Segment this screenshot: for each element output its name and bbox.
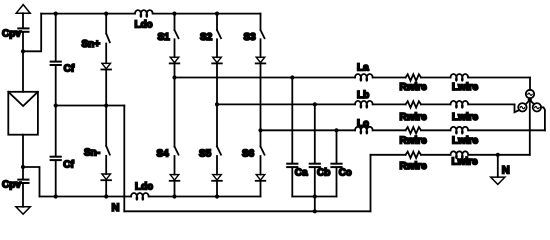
wire star diagonals xyxy=(526,100,530,105)
svg-text:S2: S2 xyxy=(200,32,213,43)
inductor La xyxy=(355,74,373,77)
svg-text:Cc: Cc xyxy=(339,167,352,178)
wire Cpv to junction xyxy=(22,33,24,52)
svg-text:S6: S6 xyxy=(242,149,255,160)
diode of Sn- xyxy=(102,174,111,179)
svg-text:Cf: Cf xyxy=(64,64,75,75)
ground N (triangle down) xyxy=(491,177,505,184)
wire mid junction to Cf bottom xyxy=(55,106,57,156)
node top bus / S1 xyxy=(172,12,176,16)
switch S6 xyxy=(260,130,262,146)
capacitor Cpv (bottom) xyxy=(18,180,28,183)
switch S1 xyxy=(174,14,176,30)
inductor Lwire (neutral) xyxy=(451,151,469,155)
node phase A / S1 xyxy=(172,75,176,79)
wire N row xyxy=(124,210,370,212)
svg-text:N: N xyxy=(502,164,510,176)
diode of S3 xyxy=(256,57,265,62)
node bottom bus / Sn- xyxy=(104,194,108,198)
diode of S4 xyxy=(170,175,179,180)
node phase C / Cc xyxy=(334,128,338,132)
wire phase B bus xyxy=(217,103,355,105)
wire jog junction to bottom bus xyxy=(23,167,40,197)
diode of S2 xyxy=(213,57,222,62)
wire mid row xyxy=(56,105,125,107)
capacitor Cf (bottom) xyxy=(51,157,61,160)
svg-text:Lwire: Lwire xyxy=(452,135,479,146)
switch S2 xyxy=(216,14,218,30)
capacitor Cpv (top) xyxy=(18,28,28,31)
svg-text:Rwire: Rwire xyxy=(400,135,428,146)
wire neutral row xyxy=(371,154,406,156)
svg-text:Cf: Cf xyxy=(63,160,74,171)
svg-text:La: La xyxy=(357,62,369,73)
svg-text:Cpv: Cpv xyxy=(2,29,21,40)
capacitor Cf (top) xyxy=(51,62,61,65)
svg-text:Lwire: Lwire xyxy=(452,156,479,167)
inductor Ldc (bottom) xyxy=(131,193,149,196)
switch S4 xyxy=(174,78,176,147)
svg-text:Ldc: Ldc xyxy=(135,20,153,31)
svg-text:Rwire: Rwire xyxy=(400,112,428,123)
diode of S6 xyxy=(256,175,265,180)
wire Sn+ diode to mid junction xyxy=(105,70,107,105)
wire phase A corner down to source xyxy=(529,78,531,90)
node mid / Sn xyxy=(104,103,108,107)
capacitor Ca xyxy=(291,78,293,163)
node mid / Cf xyxy=(54,103,58,107)
node top bus / S2 xyxy=(215,12,219,16)
svg-text:S1: S1 xyxy=(158,32,171,43)
svg-text:Lb: Lb xyxy=(357,90,369,101)
wire Cf bottom to bottom bus xyxy=(55,161,57,197)
wire capacitor common bus xyxy=(292,196,336,198)
capacitor Cc xyxy=(336,130,338,163)
node phase A / Ca xyxy=(290,75,294,79)
switch S5 xyxy=(216,104,218,146)
wire Sn- diode to bottom bus xyxy=(105,181,107,197)
node phase B / Cb xyxy=(313,102,317,106)
switch Sn- xyxy=(105,106,107,147)
svg-text:Lwire: Lwire xyxy=(452,112,479,123)
inductor Lc xyxy=(355,127,373,131)
PV panel xyxy=(8,92,38,135)
svg-text:Sn+: Sn+ xyxy=(82,39,101,50)
wire top bus (left part) xyxy=(41,13,135,15)
wire phase C riser to source xyxy=(541,107,545,130)
capacitor Cb xyxy=(314,104,316,162)
wire bottom bus left part xyxy=(40,196,132,198)
wire Cpv bottom to ground xyxy=(22,184,24,207)
node top bus / Cf xyxy=(54,12,58,16)
ground top-left (earth triangle up) xyxy=(16,5,30,14)
node neutral / ground tap xyxy=(496,153,500,157)
switch S3 xyxy=(260,14,262,30)
svg-text:Cpv: Cpv xyxy=(2,180,21,191)
wire PV to bottom junction xyxy=(22,135,24,167)
wire star point to neutral xyxy=(529,100,531,155)
svg-text:Sn-: Sn- xyxy=(84,148,100,159)
svg-text:Cb: Cb xyxy=(317,167,330,178)
resistor Rwire (phase B) xyxy=(406,101,421,107)
source Vb xyxy=(518,103,526,111)
diode of S5 xyxy=(213,175,222,180)
wire ground tap xyxy=(497,155,499,177)
node bottom bus / S5 xyxy=(215,194,219,198)
node phase B / S2 xyxy=(215,102,219,106)
wire jog junction to top bus xyxy=(23,14,41,52)
diode of Sn+ xyxy=(102,63,111,68)
wire Cf rail upper xyxy=(55,14,57,61)
inductor Lwire (phase C) xyxy=(451,127,469,131)
svg-text:Rwire: Rwire xyxy=(400,161,428,172)
svg-text:Lc: Lc xyxy=(357,119,369,130)
node cap bus / Cb xyxy=(313,194,317,198)
node star point xyxy=(528,98,532,102)
node bottom bus / Cf xyxy=(54,194,58,198)
wire phase B jog into source xyxy=(515,104,520,112)
svg-text:S5: S5 xyxy=(199,149,212,160)
resistor Rwire (phase C) xyxy=(406,127,421,133)
wire junction to PV panel xyxy=(22,51,24,92)
node N row / cap tap xyxy=(313,209,317,213)
svg-text:Ca: Ca xyxy=(295,167,308,178)
svg-text:Lwire: Lwire xyxy=(452,82,479,93)
wire phase C bus xyxy=(261,129,356,131)
wire junction to Cpv bottom xyxy=(22,167,24,179)
wire Cf top to mid junction xyxy=(55,66,57,106)
node bottom bus / S4 xyxy=(172,194,176,198)
wire N riser xyxy=(123,106,125,212)
wire neutral riser xyxy=(370,155,372,212)
source Va (circle w/ tilde) xyxy=(526,90,534,98)
wire cap bus to N row xyxy=(314,197,316,212)
svg-text:S4: S4 xyxy=(157,149,170,160)
switch Sn+ xyxy=(105,14,107,34)
ground bottom-left (earth triangle down) xyxy=(16,207,30,214)
source Vc xyxy=(533,103,541,111)
wire top bus (right part) xyxy=(153,13,261,15)
node PV- junction xyxy=(21,165,25,169)
inductor Lwire (phase B) xyxy=(451,101,469,104)
node phase C / S3 xyxy=(258,128,262,132)
node top bus / Sn+ xyxy=(104,12,108,16)
inductor Lb xyxy=(355,101,373,104)
inductor Lwire (phase A) xyxy=(451,74,469,77)
wire triangle to Cpv top xyxy=(22,13,24,27)
svg-text:N: N xyxy=(112,202,120,214)
wire bottom bus right part xyxy=(149,196,261,198)
svg-text:S3: S3 xyxy=(244,32,257,43)
inductor Ldc (top) xyxy=(135,10,153,14)
node PV+ junction xyxy=(21,49,25,53)
resistor Rwire (phase A) xyxy=(406,74,421,80)
svg-text:Ldc: Ldc xyxy=(135,182,153,193)
resistor Rwire (neutral) xyxy=(406,152,421,158)
svg-text:Rwire: Rwire xyxy=(400,82,428,93)
wire phase A bus xyxy=(175,77,356,79)
diode of S1 xyxy=(170,57,179,62)
